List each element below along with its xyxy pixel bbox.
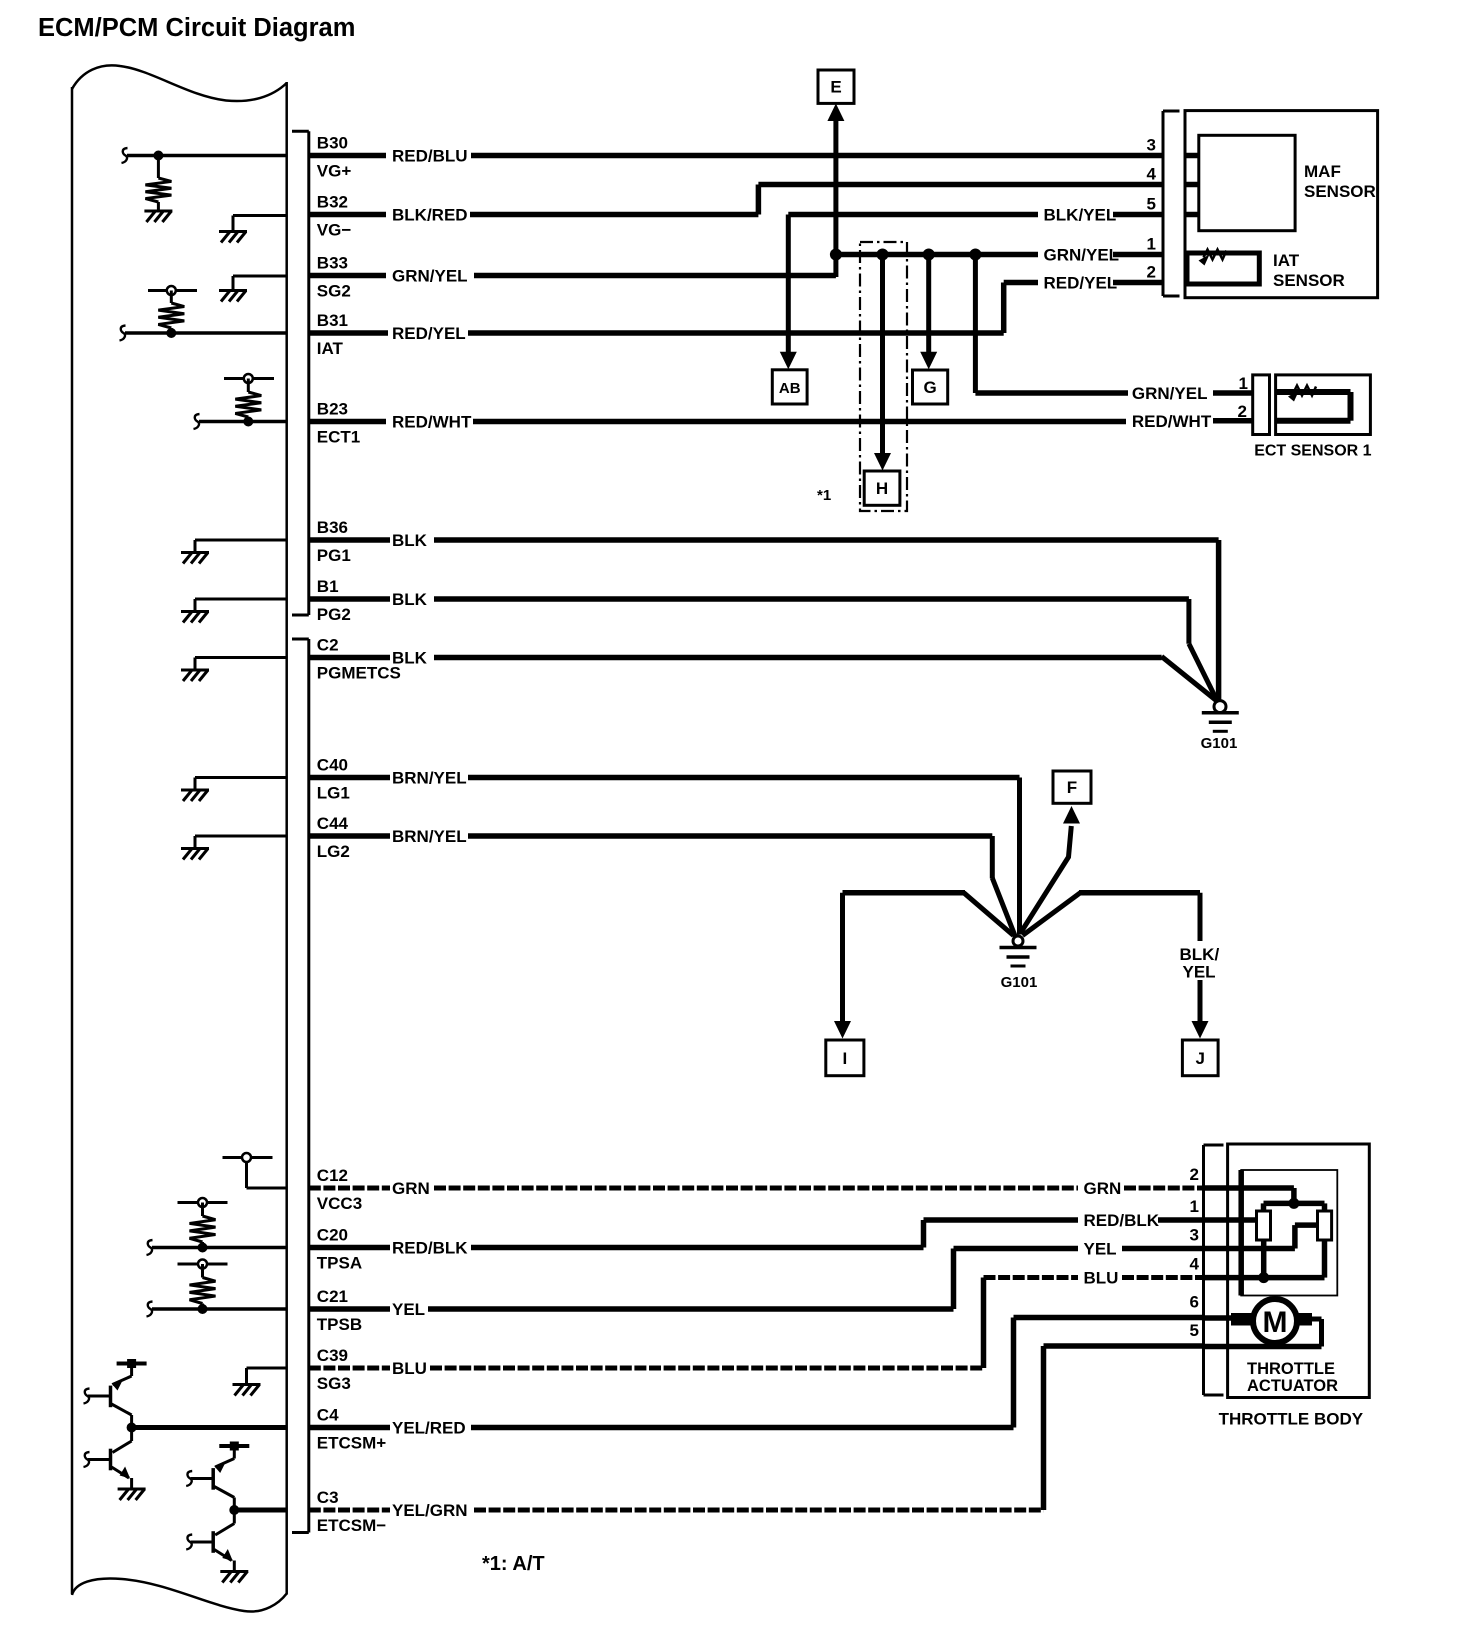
svg-text:LG2: LG2 (317, 842, 350, 861)
svg-text:THROTTLE: THROTTLE (1247, 1360, 1335, 1378)
svg-text:BLK/YEL: BLK/YEL (1044, 206, 1117, 225)
svg-text:BLK: BLK (392, 531, 428, 550)
svg-text:BLK: BLK (392, 590, 428, 609)
svg-text:PGMETCS: PGMETCS (317, 664, 401, 683)
svg-text:B33: B33 (317, 254, 348, 273)
svg-text:BRN/YEL: BRN/YEL (392, 827, 467, 846)
svg-text:C44: C44 (317, 814, 349, 833)
svg-text:5: 5 (1147, 195, 1156, 214)
svg-text:3: 3 (1190, 1226, 1199, 1245)
svg-text:B30: B30 (317, 134, 348, 153)
svg-text:GRN/YEL: GRN/YEL (392, 267, 468, 286)
svg-text:GRN: GRN (1084, 1179, 1122, 1198)
svg-text:RED/YEL: RED/YEL (1044, 274, 1118, 293)
svg-text:PG2: PG2 (317, 605, 351, 624)
svg-text:5: 5 (1190, 1321, 1199, 1340)
svg-text:ECM/PCM Circuit Diagram: ECM/PCM Circuit Diagram (38, 14, 355, 42)
svg-text:YEL: YEL (1183, 963, 1216, 982)
svg-text:B23: B23 (317, 400, 348, 419)
svg-text:J: J (1196, 1049, 1205, 1068)
svg-text:BLU: BLU (392, 1359, 427, 1378)
svg-text:6: 6 (1190, 1293, 1199, 1312)
svg-text:BLK: BLK (392, 649, 428, 668)
svg-text:C12: C12 (317, 1166, 348, 1185)
svg-text:GRN: GRN (392, 1179, 430, 1198)
svg-text:*1: *1 (817, 487, 831, 504)
svg-text:YEL/RED: YEL/RED (392, 1419, 466, 1438)
svg-text:C40: C40 (317, 756, 348, 775)
svg-text:3: 3 (1147, 136, 1156, 155)
svg-text:AB: AB (779, 380, 801, 397)
svg-text:GRN/YEL: GRN/YEL (1132, 384, 1208, 403)
svg-text:BLU: BLU (1084, 1269, 1119, 1288)
svg-text:YEL: YEL (1084, 1240, 1117, 1259)
svg-text:B36: B36 (317, 518, 348, 537)
svg-text:*1: A/T: *1: A/T (482, 1553, 545, 1575)
svg-text:C39: C39 (317, 1346, 348, 1365)
svg-text:LG1: LG1 (317, 784, 350, 803)
svg-text:H: H (876, 479, 888, 498)
svg-text:E: E (830, 78, 841, 97)
svg-text:THROTTLE BODY: THROTTLE BODY (1219, 1410, 1364, 1429)
svg-text:M: M (1263, 1306, 1288, 1339)
svg-text:ETCSM+: ETCSM+ (317, 1434, 387, 1453)
svg-text:4: 4 (1147, 165, 1157, 184)
svg-text:1: 1 (1190, 1197, 1199, 1216)
svg-text:B32: B32 (317, 193, 348, 212)
svg-text:F: F (1067, 778, 1077, 797)
svg-text:RED/WHT: RED/WHT (1132, 412, 1212, 431)
svg-text:2: 2 (1190, 1165, 1199, 1184)
svg-text:RED/YEL: RED/YEL (392, 324, 466, 343)
svg-text:TPSA: TPSA (317, 1254, 362, 1273)
svg-text:TPSB: TPSB (317, 1315, 362, 1334)
svg-text:G101: G101 (1001, 974, 1038, 991)
svg-text:2: 2 (1238, 402, 1247, 421)
svg-text:SENSOR: SENSOR (1304, 182, 1376, 201)
svg-text:ECT SENSOR 1: ECT SENSOR 1 (1254, 443, 1371, 460)
svg-text:RED/BLK: RED/BLK (1084, 1211, 1160, 1230)
svg-text:VCC3: VCC3 (317, 1194, 362, 1213)
svg-text:YEL/GRN: YEL/GRN (392, 1501, 468, 1520)
svg-text:4: 4 (1190, 1255, 1200, 1274)
svg-text:C21: C21 (317, 1287, 348, 1306)
svg-text:BLK/RED: BLK/RED (392, 206, 468, 225)
svg-text:IAT: IAT (1273, 251, 1300, 270)
svg-text:ETCSM−: ETCSM− (317, 1516, 387, 1535)
svg-text:VG+: VG+ (317, 162, 352, 181)
svg-text:RED/BLU: RED/BLU (392, 147, 468, 166)
svg-text:YEL: YEL (392, 1300, 425, 1319)
svg-text:RED/BLK: RED/BLK (392, 1239, 468, 1258)
svg-text:VG−: VG− (317, 221, 352, 240)
svg-text:SG2: SG2 (317, 282, 351, 301)
svg-text:2: 2 (1147, 263, 1156, 282)
svg-text:1: 1 (1239, 374, 1248, 393)
svg-text:B1: B1 (317, 577, 339, 596)
svg-text:SG3: SG3 (317, 1374, 351, 1393)
svg-text:GRN/YEL: GRN/YEL (1044, 246, 1120, 265)
svg-text:ECT1: ECT1 (317, 428, 360, 447)
svg-text:I: I (842, 1049, 847, 1068)
svg-text:ACTUATOR: ACTUATOR (1247, 1377, 1338, 1395)
svg-text:C4: C4 (317, 1406, 339, 1425)
svg-text:BLK/: BLK/ (1180, 945, 1220, 964)
svg-text:G101: G101 (1201, 735, 1238, 752)
svg-text:SENSOR: SENSOR (1273, 271, 1345, 290)
svg-text:C3: C3 (317, 1488, 339, 1507)
svg-text:PG1: PG1 (317, 546, 351, 565)
svg-text:G: G (923, 378, 936, 397)
svg-text:BRN/YEL: BRN/YEL (392, 769, 467, 788)
svg-text:1: 1 (1147, 235, 1156, 254)
svg-text:C20: C20 (317, 1226, 348, 1245)
svg-text:C2: C2 (317, 636, 339, 655)
svg-text:B31: B31 (317, 311, 348, 330)
svg-text:RED/WHT: RED/WHT (392, 413, 472, 432)
svg-text:IAT: IAT (317, 339, 344, 358)
svg-text:MAF: MAF (1304, 162, 1341, 181)
